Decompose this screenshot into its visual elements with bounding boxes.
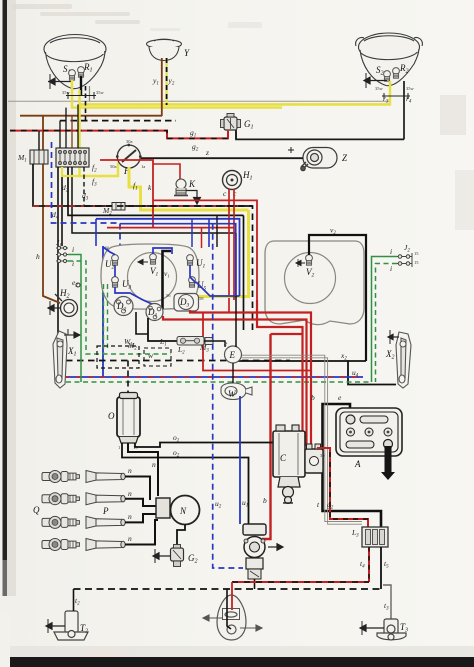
svg-text:1a: 1a — [141, 164, 145, 169]
wire red brake run — [232, 581, 369, 583]
scan smudge right margin — [440, 95, 466, 135]
wire blue u4 bus lower — [64, 376, 363, 378]
wire e battery feed — [323, 404, 382, 527]
wire fusebox drop 5 dashed d1 — [83, 167, 85, 206]
wire coil HT lead to distributor — [128, 443, 158, 496]
wire green solid from J2 — [372, 257, 398, 383]
speedometer housing — [101, 244, 199, 309]
svg-text:b: b — [311, 393, 315, 402]
wire blue from trunk into U1 — [196, 282, 240, 296]
wire gray t3 — [383, 585, 391, 619]
ground arrow at G2 — [153, 549, 170, 563]
wire t4 red drop from L3 — [368, 547, 370, 582]
spark plug Q2 — [42, 493, 80, 505]
bulb R1 in left headlamp — [78, 67, 85, 78]
wire brown h horizontal — [20, 115, 162, 117]
wire black into licence lamp — [227, 589, 231, 629]
svg-text:i: i — [72, 245, 74, 254]
ground arrow at T2 — [46, 619, 65, 633]
wire blue U3 down to D1 — [115, 287, 155, 308]
wire black dashed drop r2 — [85, 86, 87, 121]
svg-text:w: w — [148, 351, 153, 360]
wire M1 top link — [38, 131, 40, 150]
interior lamp Y body — [147, 39, 182, 60]
ground arrow at X2 — [388, 330, 399, 344]
plug boot P1 — [86, 471, 125, 483]
headlamp right reflector — [356, 33, 423, 86]
bulb V2 — [306, 255, 313, 266]
wire z horn feed — [141, 157, 303, 159]
scan smudge top left — [12, 4, 262, 31]
ground arrow at K — [186, 191, 202, 205]
generator pulley — [278, 477, 300, 504]
svg-text:15: 15 — [414, 260, 419, 265]
wire black dashed tail run — [74, 588, 382, 590]
starter B commutator fuse — [248, 569, 261, 579]
switch D2 — [114, 297, 133, 316]
wire blue u1 — [239, 396, 241, 524]
battery ground strap — [381, 446, 395, 480]
wire gray t pair to L3 — [325, 519, 362, 524]
wire fusebox top pin 2 — [65, 108, 67, 148]
wire E top to black trunk — [235, 233, 237, 347]
wire n4 — [125, 520, 158, 545]
left border black strip — [3, 0, 8, 596]
wire brown h to H2 — [43, 287, 60, 303]
wire red thick from D1 lower — [163, 316, 307, 446]
wire t2 drop — [73, 589, 75, 611]
wire blue U2 to U3 — [114, 265, 116, 277]
svg-text:P: P — [102, 506, 109, 516]
wire n2 — [125, 499, 158, 506]
ground arrow right headlamp — [364, 73, 387, 88]
wire right headlamp yellow riser r3 — [389, 81, 391, 106]
wire blue U1 drop — [190, 265, 196, 283]
svg-text:z: z — [205, 148, 209, 157]
svg-text:35w: 35w — [62, 90, 71, 95]
bulb V1 — [150, 254, 157, 265]
trunk wire black — [243, 215, 245, 330]
plug boot P2 — [86, 493, 125, 505]
fuse L2 — [177, 337, 204, 346]
svg-text:Q: Q — [33, 505, 40, 515]
wire y2 yellow-black from lamp Y — [166, 58, 168, 105]
wire v2 black from bulb over gauge — [309, 235, 366, 361]
wire yellow bus lower — [72, 106, 282, 108]
wire red k branch to lamp K — [153, 164, 180, 181]
wire gray t double line — [242, 355, 328, 519]
wire blue speedo loop — [103, 247, 115, 255]
bulb U3 — [112, 277, 119, 288]
starter B lower — [246, 558, 263, 569]
ground tick at horn — [288, 147, 294, 153]
ground arrow right at licence lamp — [240, 625, 262, 631]
wire yellow f2 from headlamp area down to switch F — [80, 90, 119, 176]
ground arrow left headlamp — [48, 74, 72, 89]
starter B body — [244, 537, 265, 558]
wire left headlamp yellow drop s1 — [71, 80, 73, 109]
wire yellow f3 from fusebox — [62, 167, 80, 176]
battery A — [336, 408, 402, 456]
wire M1 drop to d-line — [33, 164, 253, 206]
wire c1 from H1 down — [228, 189, 230, 313]
dashed box W1 — [97, 346, 139, 368]
svg-text:35w: 35w — [406, 86, 415, 91]
plug boot P3 — [86, 516, 125, 528]
bulb U1 — [187, 255, 194, 266]
wire blue left end drop — [95, 219, 97, 246]
wire fusebox top pin 4 — [77, 104, 79, 148]
wire red g1 with step — [10, 131, 228, 139]
horn H2 — [55, 283, 80, 317]
svg-text:56: 56 — [166, 293, 171, 298]
lighting switch F — [116, 144, 142, 168]
regulator on generator — [305, 444, 323, 473]
fuse G2 — [171, 545, 184, 567]
wire left headlamp black drop — [80, 76, 82, 96]
connector J2 upper — [397, 253, 412, 260]
wiper motor W — [221, 383, 252, 400]
wire black from D1 to L2 — [148, 318, 177, 341]
blue dashed wire from M1 area down — [52, 142, 121, 296]
speedometer dial — [128, 253, 177, 302]
wire o2 black to starter — [122, 443, 249, 524]
wire blue u2 feed — [120, 224, 236, 296]
wire red riser into speedo — [201, 228, 203, 248]
wire brown h vertical to horn H2 — [42, 116, 44, 287]
fuse G1 — [221, 114, 241, 131]
trunk wire red upper — [153, 200, 257, 300]
ground arrow at X1 — [64, 329, 80, 338]
wire black dash overlay on g1 — [10, 131, 228, 139]
wire x2 to v2 junction — [348, 360, 366, 362]
ignition coil O — [117, 393, 140, 444]
bulb U2 — [112, 255, 119, 266]
bottom border black bar — [0, 657, 474, 667]
svg-text:K: K — [188, 179, 196, 189]
ground arrow at starter — [268, 544, 283, 550]
svg-text:n: n — [128, 534, 132, 543]
svg-text:C: C — [280, 453, 287, 463]
horn button H1 — [223, 171, 242, 190]
wire G1 right leg — [235, 130, 237, 139]
wire red b horizontal — [271, 333, 303, 335]
switch D1 — [146, 304, 163, 321]
wire fusebox top pin 1 — [59, 121, 61, 148]
wire G1 left leg — [227, 130, 229, 138]
licence plate lamp — [217, 595, 246, 640]
wire coil top feed from dashed w-line — [127, 361, 129, 393]
svg-text:35w: 35w — [96, 90, 105, 95]
wire y1 brown from lamp Y — [161, 58, 163, 116]
starter B top cap — [243, 524, 266, 535]
connector J1 rows — [56, 246, 68, 262]
fuel gauge dial — [285, 253, 336, 304]
horn Z — [301, 148, 337, 171]
wire green solid from J1 — [68, 255, 81, 383]
ground arrow at V2 — [296, 259, 305, 267]
switch E — [225, 346, 242, 363]
svg-text:n: n — [128, 489, 132, 498]
svg-text:30a: 30a — [126, 139, 133, 144]
trunk wire red lower — [107, 227, 234, 229]
wire black elbow below D cluster — [136, 312, 148, 334]
wire t5 black drop from L3 — [380, 547, 382, 589]
svg-text:h: h — [36, 252, 40, 261]
wire red b down to starter — [262, 334, 271, 539]
spark plug Q4 — [42, 539, 80, 551]
semaphore X2 — [396, 332, 411, 388]
wire E bottom to W — [232, 363, 234, 383]
svg-text:i: i — [390, 247, 392, 256]
svg-text:50a: 50a — [110, 164, 117, 169]
ground arrow at V1 — [138, 259, 148, 264]
svg-text:N: N — [179, 506, 187, 516]
ground arrow at H2 — [48, 301, 61, 315]
wire o1 black to solenoid — [135, 443, 302, 448]
wire red-black g2 from regulator down to L3 feed — [317, 448, 368, 527]
headlamp left reflector — [44, 35, 106, 89]
switch D3 housing — [174, 294, 199, 312]
distributor N cap box — [156, 498, 170, 518]
fuse box — [56, 148, 89, 167]
trunk wire black dashed — [84, 206, 253, 330]
connector ticks right headlamp — [382, 93, 410, 99]
wire green dashed pair through D2 — [103, 284, 105, 354]
wire fusebox drop 4 — [72, 167, 236, 233]
tail lamp T3 — [377, 619, 406, 640]
bulb R2 in right headlamp — [393, 68, 400, 79]
svg-text:A: A — [354, 459, 361, 469]
wire red k feed — [100, 160, 153, 228]
wire black g2 from fuse G1 to right headlamp — [236, 131, 404, 139]
svg-text:35w: 35w — [375, 86, 384, 91]
dashed box L1 — [144, 348, 171, 366]
svg-text:i: i — [390, 264, 392, 273]
wire yellow f1 main beam bus from switch F — [129, 167, 249, 210]
wire L2 to E — [204, 341, 225, 347]
wire blue V1 riser — [153, 248, 172, 254]
fuse M3 small — [205, 338, 213, 345]
spark plug Q1 — [42, 471, 80, 483]
trunk wire yellow vertical to D3 — [198, 210, 249, 297]
wire gray drop — [89, 86, 91, 102]
ground arrow at T3 — [360, 621, 384, 635]
svg-text:n: n — [152, 460, 156, 469]
gray fold line across top — [8, 100, 390, 102]
fuel gauge housing — [265, 241, 364, 325]
wire black dashed headlamp bus — [60, 120, 176, 122]
wire right headlamp black riser r4 — [403, 81, 405, 139]
bulb U5 — [189, 277, 196, 288]
wire n3 — [125, 514, 158, 522]
wire red vertical at 203 — [203, 313, 311, 371]
wire green dashed from J2 — [376, 264, 398, 383]
wire c2 from H1 down to red trunk — [233, 189, 235, 228]
svg-text:O: O — [108, 411, 115, 421]
wire black dash overlay on brake run — [232, 581, 369, 583]
generator C body — [273, 425, 305, 477]
svg-text:15: 15 — [414, 251, 419, 256]
fuse block L3 — [362, 527, 388, 547]
wire black riser right of speedo — [216, 215, 218, 247]
connector J2 lower — [397, 260, 412, 267]
svg-text:58: 58 — [199, 296, 204, 301]
fuse M2 on d-line — [112, 203, 125, 211]
wire blue riser 2 — [191, 219, 193, 247]
wire starter bottom to dashed run — [254, 579, 256, 589]
svg-text:n: n — [128, 466, 132, 475]
wire blue riser right of speedo — [208, 219, 210, 247]
wire red dash overlay on d-line — [33, 205, 253, 207]
wire x2 black feed — [230, 361, 396, 385]
warning lamp K — [174, 179, 188, 196]
wire w black dashed bus — [66, 360, 290, 362]
semaphore X1 — [53, 331, 67, 388]
wire blue dashed u2 — [213, 224, 243, 568]
tail lamp T2 — [54, 611, 88, 640]
wire fusebox drop 3 black to trunk — [68, 167, 244, 215]
wire red into licence lamp — [231, 582, 233, 610]
wire yellow bus upper — [80, 103, 391, 106]
wire blue u4 down left side of speedo — [102, 246, 104, 377]
svg-text:1: 1 — [118, 445, 120, 450]
wire fusebox drop 2 — [61, 167, 63, 246]
wire v1 black through speedometer — [163, 251, 172, 309]
bulb S2 in right headlamp — [384, 71, 391, 82]
wire red thick from D3 right upper — [190, 310, 311, 446]
plug boot P4 — [86, 539, 125, 551]
wire green dashed bus lower — [66, 381, 372, 383]
fuse M1 — [30, 150, 48, 164]
distributor N — [171, 496, 200, 525]
wire N bottom to G2 — [177, 525, 185, 547]
wire fusebox top pin 3 brown — [71, 116, 73, 148]
ground arrow left at licence lamp — [203, 615, 222, 621]
bottom gray smear — [0, 646, 474, 657]
svg-text:n: n — [128, 512, 132, 521]
bulb S1 in left headlamp — [69, 70, 76, 81]
trunk wire blue — [96, 219, 240, 296]
wire red lower vertical at 234 — [233, 228, 235, 300]
wire red b branch — [257, 300, 303, 448]
switch D3 — [179, 295, 194, 310]
svg-text:E: E — [229, 350, 236, 360]
svg-text:b: b — [263, 496, 267, 505]
wire n1 — [125, 477, 150, 501]
wire fusebox drop 1 — [57, 167, 59, 341]
connector ticks under left headlamp — [66, 92, 96, 99]
wire green dashed from J1 — [68, 261, 171, 354]
spark plug Q3 — [42, 516, 80, 528]
